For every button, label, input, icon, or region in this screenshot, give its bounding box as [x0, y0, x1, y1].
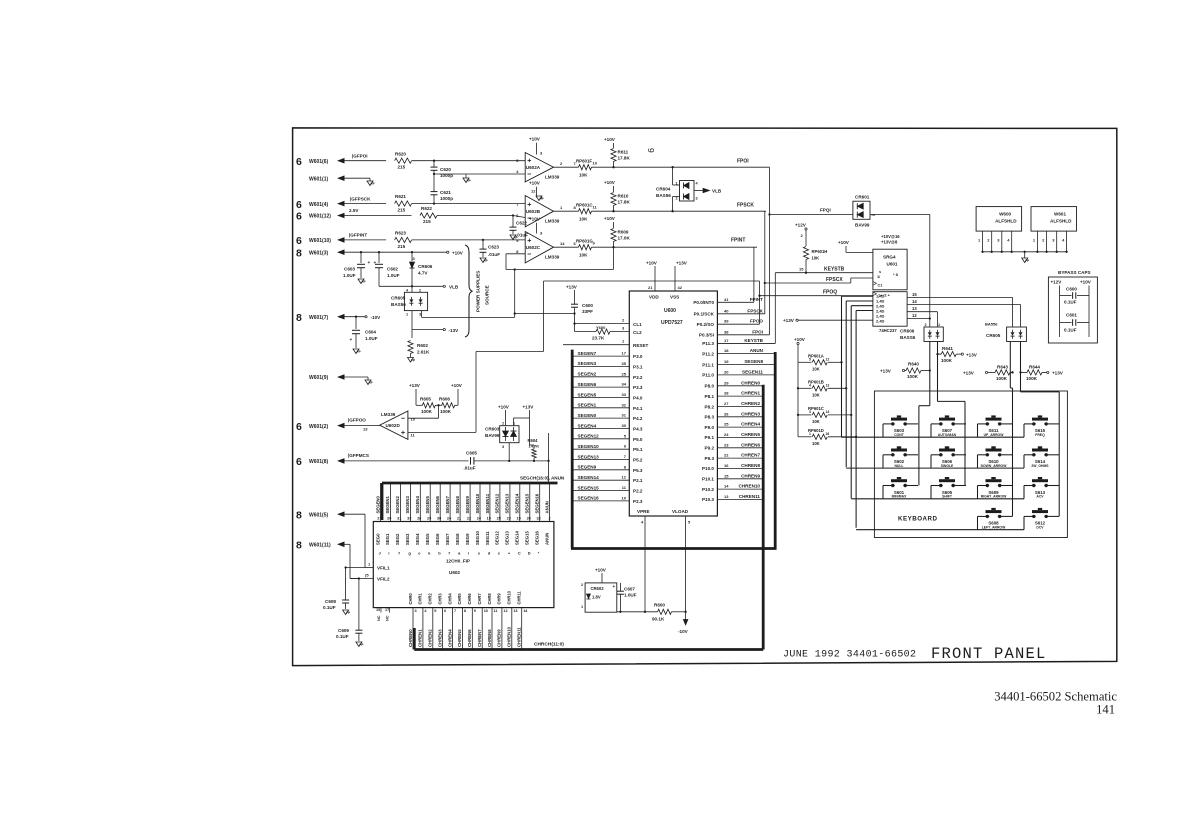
svg-text:1.0UF: 1.0UF [343, 273, 356, 278]
bus CHRCH heavy [414, 628, 763, 650]
power supplies brace [465, 245, 473, 337]
bus CHREN heavy [762, 385, 765, 650]
svg-text:R600: R600 [654, 603, 665, 608]
svg-text:C602: C602 [387, 267, 398, 272]
svg-text:NC: NC [386, 615, 390, 621]
wire keyboard column 1 [919, 342, 930, 486]
svg-text:LM339: LM339 [545, 219, 560, 224]
svg-text:31: 31 [622, 413, 627, 418]
svg-text:CL1: CL1 [633, 322, 642, 327]
svg-text:CHREN11: CHREN11 [739, 494, 761, 499]
svg-text:CHR6: CHR6 [467, 593, 472, 605]
wire FPOO long route [544, 281, 761, 352]
dual diode CR606 [900, 312, 943, 342]
capacitor C622 [510, 216, 529, 241]
VFD segment pin SEGEN14 [515, 483, 521, 556]
svg-text:FPSCK: FPSCK [747, 308, 763, 313]
svg-text:RESET: RESET [633, 343, 649, 348]
svg-text:W601(12): W601(12) [309, 214, 331, 220]
VFD segment pin SEGEN15 [525, 483, 531, 556]
connector W601(1) [309, 176, 329, 182]
wire CR605 to comparator area [422, 311, 515, 318]
net CHREN0 wire [705, 380, 764, 388]
svg-text:P4.1: P4.1 [633, 406, 643, 411]
net CHREN8 wire [702, 463, 763, 471]
svg-text:U602: U602 [449, 570, 460, 575]
svg-text:U602A: U602A [526, 165, 541, 170]
VFD grid pin CHR6 [467, 593, 476, 650]
wire +13V demux [783, 318, 873, 323]
capacitor C602 [374, 252, 400, 286]
resistor R641 [938, 342, 978, 363]
svg-text:AUTO/MAN: AUTO/MAN [938, 433, 957, 437]
svg-text:R622: R622 [421, 206, 432, 211]
svg-text:|GFPSCK: |GFPSCK [350, 196, 371, 201]
svg-text:+12V: +12V [795, 223, 807, 228]
svg-text:2: 2 [581, 583, 583, 587]
svg-text:SEGEN6: SEGEN6 [435, 495, 440, 513]
resistor R605 [409, 383, 435, 414]
svg-text:23: 23 [724, 442, 729, 447]
svg-text:SEG1: SEG1 [385, 533, 390, 545]
svg-text:CHREN2: CHREN2 [741, 401, 760, 406]
svg-text:RP601G: RP601G [576, 238, 593, 243]
svg-text:VLB: VLB [449, 285, 459, 290]
svg-text:CHREN3: CHREN3 [437, 629, 442, 647]
net CHREN5 wire [705, 432, 764, 440]
svg-text:100K: 100K [421, 409, 433, 414]
svg-text:CR605: CR605 [391, 296, 406, 301]
svg-text:SRG4: SRG4 [883, 255, 896, 260]
svg-text:CHR1: CHR1 [418, 593, 423, 605]
VFD grid pin CHR2 [428, 593, 437, 650]
svg-text:0.1UF: 0.1UF [1064, 328, 1077, 333]
wire GFPMCS riser [547, 433, 549, 483]
svg-text:C605: C605 [466, 451, 477, 456]
svg-text:P0.3/SI: P0.3/SI [699, 333, 714, 338]
wire W601(1) [337, 175, 375, 186]
svg-text:VFIL2: VFIL2 [377, 576, 390, 581]
svg-text:SEG3: SEG3 [405, 533, 410, 545]
svg-text:10K: 10K [812, 256, 820, 261]
svg-text:27: 27 [377, 517, 381, 521]
net CHREN11 wire [702, 494, 763, 502]
svg-text:U601: U601 [887, 262, 898, 267]
svg-text:W601(5): W601(5) [309, 512, 329, 518]
capacitor C608 [323, 568, 365, 616]
wire W601(6) |GFPOI [337, 154, 386, 164]
svg-text:FPQI: FPQI [820, 208, 831, 213]
svg-text:FPOO: FPOO [750, 319, 763, 324]
svg-text:13: 13 [363, 427, 368, 432]
resistor R640 [880, 362, 931, 380]
svg-text:3: 3 [696, 197, 698, 201]
net SEGEN1 wire [572, 402, 643, 411]
page number 141 [1096, 703, 1115, 717]
resistor R643 [963, 364, 1014, 381]
svg-text:CR606: CR606 [900, 329, 915, 334]
svg-text:SEGEN7: SEGEN7 [578, 351, 597, 356]
svg-text:C600: C600 [582, 303, 593, 308]
svg-text:+: + [374, 261, 377, 266]
svg-text:W601(6): W601(6) [309, 159, 329, 165]
svg-text:10K: 10K [812, 419, 820, 424]
net FPOI wire [699, 329, 770, 337]
VFD grid pin CHR11 [517, 591, 529, 650]
VFD grid pin CHR4 [447, 593, 456, 650]
wire FPSCK row [765, 277, 873, 283]
op-amp U602C [516, 217, 565, 263]
svg-text:12: 12 [503, 609, 507, 613]
svg-text:2: 2 [548, 517, 550, 521]
svg-text:CR605: CR605 [986, 333, 1001, 338]
connector W601(3) [296, 247, 329, 259]
svg-text:SEGEN0: SEGEN0 [375, 495, 380, 513]
net CHREN7 wire [705, 453, 764, 461]
svg-text:+: + [613, 584, 616, 589]
switch S613 ACV [1032, 477, 1048, 499]
wire CR603 down [508, 443, 510, 461]
connector W601(5) [296, 509, 329, 521]
svg-text:W601(11): W601(11) [309, 543, 331, 549]
svg-text:P0.1/SCK: P0.1/SCK [694, 312, 715, 317]
svg-text:P9.0: P9.0 [705, 425, 715, 430]
svg-text:33: 33 [622, 392, 627, 397]
svg-text:26: 26 [724, 411, 729, 416]
wire W601(7) -10V [337, 314, 381, 320]
svg-text:LM339: LM339 [545, 255, 560, 260]
VFD segment pin SEGEN4 [415, 483, 421, 556]
svg-text:MIN/MAX: MIN/MAX [892, 495, 907, 499]
svg-text:LEFT_ARROW: LEFT_ARROW [982, 525, 1006, 529]
svg-text:R620: R620 [395, 151, 406, 156]
svg-text:CR601: CR601 [855, 195, 870, 200]
svg-text:FPINT: FPINT [731, 237, 745, 243]
svg-text:CHR5: CHR5 [457, 593, 462, 605]
svg-text:39: 39 [724, 319, 729, 324]
svg-text:21: 21 [457, 517, 461, 521]
svg-text:C608: C608 [325, 599, 336, 604]
svg-text:32: 32 [536, 517, 540, 521]
svg-text:CHREN5: CHREN5 [457, 629, 462, 647]
svg-text:1.8V: 1.8V [592, 595, 601, 600]
svg-text:C621: C621 [440, 190, 451, 195]
svg-text:SEGEN12: SEGEN12 [578, 434, 600, 439]
svg-text:8: 8 [296, 312, 302, 324]
wire CL1 [575, 318, 643, 327]
VFD segment pin SEGEN0 [375, 483, 381, 556]
VFD grid pin CHR1 [418, 593, 428, 650]
svg-text:P8.1: P8.1 [705, 394, 715, 399]
wire U602D plus input [408, 352, 544, 433]
svg-text:.01uF: .01uF [516, 232, 528, 237]
IC U602 VFD display body [365, 522, 554, 608]
VFD segment pin SEGEN9 [465, 483, 471, 556]
svg-text:CR604: CR604 [656, 187, 671, 192]
svg-text:s: s [879, 270, 881, 274]
svg-text:CHREN1: CHREN1 [741, 391, 760, 396]
svg-text:VLOAD: VLOAD [672, 509, 689, 514]
svg-text:12: 12 [912, 313, 917, 318]
VFD grid pin CHR8 [487, 593, 498, 650]
svg-text:P2.1: P2.1 [633, 478, 643, 483]
svg-text:KEYBOARD: KEYBOARD [898, 516, 937, 523]
switch S601 MIN/MAX [891, 477, 907, 499]
svg-text:33PF: 33PF [582, 309, 593, 314]
net SEGEN16 wire [572, 495, 643, 504]
capacitor C623 [480, 240, 501, 263]
switch S608 LEFT_ARROW [982, 508, 1006, 530]
svg-text:CHREN9: CHREN9 [497, 629, 502, 647]
svg-text:C609: C609 [338, 628, 349, 633]
VFD segment pin SEGEN16 [535, 483, 541, 556]
net SEGEN9 wire [572, 464, 643, 473]
wire keyboard row4 feed [855, 311, 873, 528]
svg-text:13: 13 [912, 306, 917, 311]
svg-text:J: J [379, 551, 381, 556]
switch S610 DOWN_ARROW [981, 446, 1008, 468]
svg-text:POWER SUPPLIES: POWER SUPPLIES [476, 271, 481, 312]
svg-text:19: 19 [724, 359, 729, 364]
svg-text:KEYSTB: KEYSTB [824, 267, 845, 273]
svg-text:P8.2: P8.2 [705, 404, 715, 409]
svg-text:W601(9): W601(9) [309, 375, 329, 381]
svg-text:U600: U600 [664, 308, 676, 314]
switch S609 RIGHT_ARROW [981, 477, 1007, 499]
svg-text:R609: R609 [618, 230, 629, 235]
svg-text:SEGEN1: SEGEN1 [578, 403, 597, 408]
svg-text:24: 24 [724, 432, 729, 437]
svg-text:15: 15 [912, 292, 917, 297]
svg-text:W600: W600 [999, 212, 1011, 217]
svg-text:2: 2 [676, 197, 678, 201]
resistor R622 [420, 206, 513, 224]
svg-text:CHREN10: CHREN10 [507, 626, 512, 647]
svg-text:CHR10: CHR10 [507, 590, 512, 604]
svg-text:P5.2: P5.2 [633, 458, 643, 463]
svg-text:+13V: +13V [880, 369, 892, 374]
wire keyboard row bus 1 [842, 424, 1060, 437]
svg-text:1: 1 [809, 432, 811, 436]
svg-text:P4.2: P4.2 [633, 416, 643, 421]
resistor RP601D [798, 415, 856, 446]
svg-text:C601: C601 [1066, 313, 1077, 318]
svg-text:6: 6 [296, 156, 302, 168]
VFD grid pin CHR0 [408, 593, 417, 650]
svg-text:C600: C600 [1066, 287, 1077, 292]
svg-text:22: 22 [724, 453, 729, 458]
connector W601(7) [296, 312, 329, 324]
resistor R644 [1021, 364, 1064, 381]
svg-text:W601(8): W601(8) [309, 459, 329, 465]
svg-text:6: 6 [296, 235, 302, 247]
svg-text:SEGEN9: SEGEN9 [465, 495, 470, 513]
svg-text:12: 12 [826, 357, 830, 361]
VFD NC pins [376, 608, 390, 621]
svg-text:VDD: VDD [649, 295, 659, 300]
svg-text:P11.0: P11.0 [702, 373, 714, 378]
wire shield ground bus [983, 251, 1067, 264]
svg-text:+13V: +13V [523, 405, 535, 410]
VFD segment pin SEGEN3 [405, 483, 411, 556]
svg-text:17.8K: 17.8K [618, 200, 631, 205]
wire U602D output |GFPOO [337, 418, 380, 429]
svg-text:8: 8 [464, 609, 466, 613]
svg-text:14: 14 [724, 484, 729, 489]
svg-text:U602C: U602C [526, 245, 541, 250]
dual diode CR601 [770, 195, 876, 228]
label POWER SUPPLIES [476, 271, 481, 312]
svg-text:.01uF: .01uF [464, 466, 476, 471]
svg-text:+13V: +13V [676, 261, 688, 266]
svg-text:6: 6 [296, 211, 302, 223]
svg-text:SEGEN5: SEGEN5 [578, 392, 597, 397]
svg-text:ANUN: ANUN [544, 533, 549, 545]
svg-text:SEG12: SEG12 [495, 531, 500, 545]
net SEGEN12 wire [572, 433, 643, 442]
wire keyboard row bus 4 [856, 516, 1059, 529]
svg-text:C1: C1 [878, 284, 883, 288]
svg-text:P11.2: P11.2 [702, 351, 714, 356]
svg-text:2: 2 [502, 422, 504, 426]
svg-text:SEGEN11: SEGEN11 [742, 369, 763, 374]
svg-text:FPSCX: FPSCX [826, 277, 843, 283]
switch S607 AUTO/MAN [938, 415, 957, 437]
switch S614 2W_OHMS [1031, 446, 1049, 468]
wire W601(12) 2.5V [337, 208, 412, 218]
VFD grid pin CHR10 [507, 590, 518, 649]
svg-text:P4.0: P4.0 [633, 396, 643, 401]
svg-text:P9.2: P9.2 [705, 446, 715, 451]
svg-text:6: 6 [296, 456, 302, 468]
svg-text:P3.0: P3.0 [633, 354, 643, 359]
svg-text:100K: 100K [440, 409, 452, 414]
svg-text:ALFSHLD: ALFSHLD [1050, 219, 1072, 224]
svg-text:P10.0: P10.0 [702, 466, 714, 471]
svg-text:.01uF: .01uF [488, 252, 500, 257]
svg-text:15: 15 [724, 473, 729, 478]
svg-text:29: 29 [427, 517, 431, 521]
svg-text:27: 27 [724, 401, 729, 406]
svg-text:CHR9: CHR9 [497, 593, 502, 605]
svg-text:1: 1 [676, 182, 678, 186]
svg-text:CHREN3: CHREN3 [741, 411, 760, 416]
svg-text:ANUN: ANUN [750, 348, 764, 353]
VFD segment pin SEGEN5 [425, 483, 431, 556]
svg-text:W601(3): W601(3) [309, 250, 329, 256]
connector W601(4) [296, 199, 329, 211]
svg-text:SEGEN3: SEGEN3 [405, 495, 410, 513]
net SEGEN11 wire [702, 369, 775, 377]
svg-text:VPRE: VPRE [637, 509, 650, 514]
U600 power pins [646, 261, 688, 300]
svg-text:25: 25 [497, 517, 501, 521]
connector W601(6) [296, 156, 329, 168]
svg-text:20: 20 [387, 517, 391, 521]
wire R605 R606 junction [408, 404, 440, 418]
connector W600 ALFSHLD [976, 207, 1022, 253]
resistor RP601C [554, 202, 598, 221]
svg-text:13: 13 [513, 609, 517, 613]
op-amp U602B [516, 181, 563, 227]
svg-text:4.7V: 4.7V [418, 271, 428, 276]
svg-text:14: 14 [912, 299, 917, 304]
svg-text:6: 6 [296, 199, 302, 211]
svg-text:13: 13 [826, 383, 830, 387]
svg-text:13: 13 [724, 494, 729, 499]
VFD segment pin SEGEN2 [395, 483, 401, 556]
net SEGEN15 wire [572, 485, 643, 494]
svg-text:141: 141 [1096, 703, 1115, 717]
svg-text:CHRCH(11:0): CHRCH(11:0) [534, 642, 564, 648]
svg-text:UPD7527: UPD7527 [661, 320, 683, 326]
svg-text:2,4D: 2,4D [876, 319, 885, 324]
svg-text:U602D: U602D [386, 423, 401, 428]
net SEGEN14 wire [572, 475, 643, 484]
capacitor C609 [336, 579, 364, 648]
capacitor C607 [613, 583, 637, 612]
svg-text:0.1UF: 0.1UF [1064, 300, 1077, 305]
wire KEYSTB row [717, 267, 873, 344]
wire keyboard row1 feed [840, 296, 873, 437]
svg-text:+10V: +10V [646, 261, 658, 266]
svg-text:6: 6 [444, 609, 446, 613]
svg-text:+13V: +13V [566, 285, 578, 290]
svg-text:4: 4 [809, 383, 811, 387]
svg-text:|GFPINT: |GFPINT [349, 233, 367, 238]
svg-text:10: 10 [484, 609, 488, 613]
svg-text:CHREN9: CHREN9 [741, 473, 760, 478]
net SEGEN5 wire [572, 392, 643, 401]
svg-text:31: 31 [397, 517, 401, 521]
svg-text:CHREN7: CHREN7 [477, 629, 482, 647]
title FRONT PANEL [931, 645, 1047, 663]
resistor R623 [395, 231, 526, 249]
capacitor C603 [343, 252, 371, 284]
svg-text:30: 30 [437, 517, 441, 521]
svg-text:100K: 100K [996, 376, 1008, 381]
svg-text:CHR8: CHR8 [487, 593, 492, 605]
svg-text:1: 1 [406, 313, 408, 317]
svg-text:RIGHT_ARROW: RIGHT_ARROW [981, 495, 1007, 499]
svg-text:74HC237: 74HC237 [879, 328, 897, 333]
svg-text:1: 1 [581, 605, 583, 609]
svg-text:-10V: -10V [678, 629, 689, 634]
svg-text:SEGEN8: SEGEN8 [744, 359, 763, 364]
svg-text:* 8: * 8 [893, 272, 899, 277]
connector W601(8) [296, 456, 329, 468]
U600 bottom pins [637, 509, 691, 612]
svg-text:-10V: -10V [371, 315, 382, 320]
net KEYSTB wire [702, 338, 775, 346]
svg-text:RP601F: RP601F [576, 158, 592, 163]
svg-text:SEGEN14: SEGEN14 [515, 493, 520, 513]
svg-text:VFIL1: VFIL1 [377, 565, 390, 570]
wire keyboard row bus 3 [851, 486, 1059, 499]
svg-text:23: 23 [507, 517, 511, 521]
svg-text:2: 2 [419, 288, 421, 292]
svg-text:CHREN8: CHREN8 [487, 629, 492, 647]
svg-text:LM339: LM339 [381, 412, 396, 417]
svg-text:SEG5: SEG5 [425, 533, 430, 545]
dual diode CR603 [485, 422, 519, 449]
zener CR606 [410, 252, 433, 286]
svg-text:DCV: DCV [1036, 525, 1044, 529]
capacitor C600 [566, 285, 593, 325]
svg-text:W601(10): W601(10) [309, 238, 331, 244]
svg-text:+10V: +10V [529, 217, 541, 222]
wire FPSCK [592, 202, 767, 313]
